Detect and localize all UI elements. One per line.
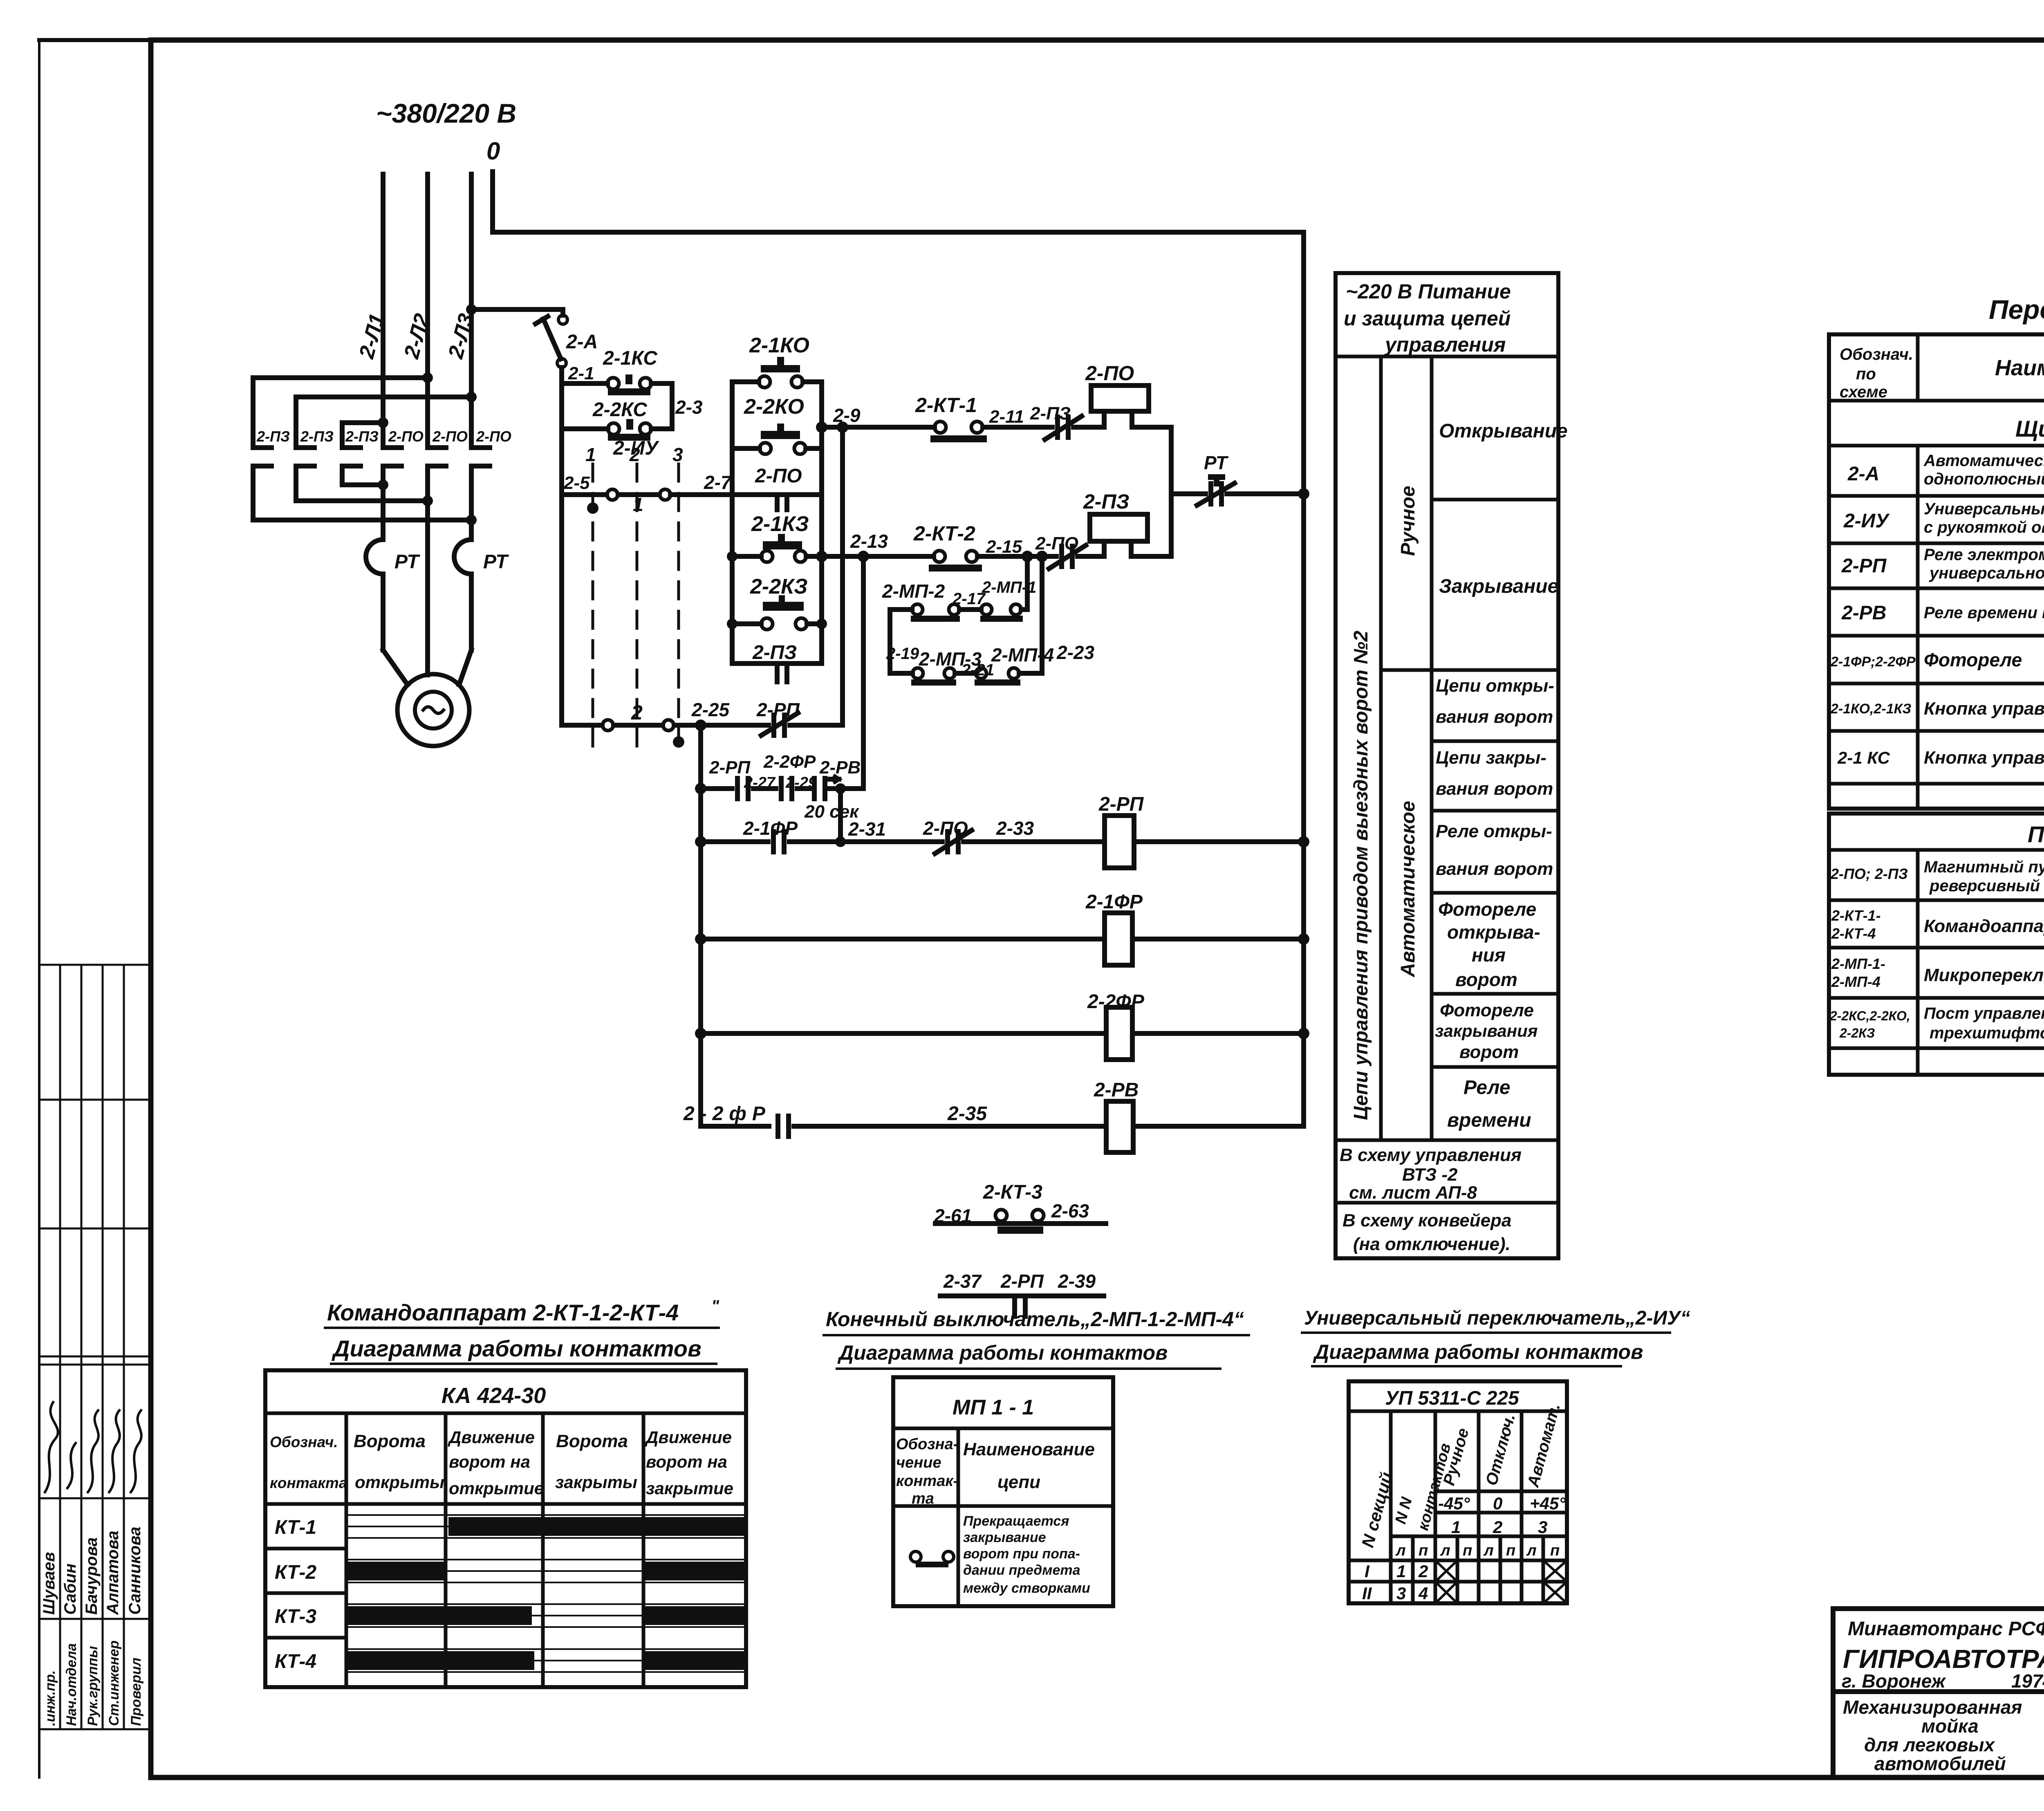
contact 2-ПО NC on РП rung: [945, 832, 950, 852]
svg-text:времени: времени: [1447, 1109, 1531, 1131]
svg-text:п: п: [1506, 1542, 1515, 1559]
svg-text:Шуваев: Шуваев: [40, 1552, 58, 1615]
svg-text:Фотореле: Фотореле: [1440, 1000, 1534, 1020]
button 2-2КЗ: [750, 575, 808, 598]
contact 2-ПЗ (block bottom stub): [752, 642, 797, 663]
contact 2-2ФР NO (bypass): [779, 778, 784, 799]
svg-text:2-ПО: 2-ПО: [1085, 362, 1134, 385]
svg-text:Командоаппарат 2-КТ-1-2-КТ-4: Командоаппарат 2-КТ-1-2-КТ-4: [327, 1300, 679, 1325]
svg-text:2-РВ: 2-РВ: [1841, 602, 1886, 624]
svg-text:РТ: РТ: [1204, 452, 1229, 473]
button 2-1КС: [562, 381, 607, 386]
svg-text:3: 3: [1538, 1517, 1547, 1537]
reversing loop middle (2-ПЗ column 2): [296, 397, 472, 448]
contact 2-1ФР NO: [771, 832, 776, 852]
svg-text:п: п: [1419, 1542, 1428, 1559]
svg-text:2-ПО; 2-ПЗ: 2-ПО; 2-ПЗ: [1830, 865, 1908, 882]
outer left paper line: [38, 40, 40, 1777]
svg-text:Обознач.: Обознач.: [270, 1434, 338, 1450]
svg-text:2-А: 2-А: [1847, 463, 1879, 485]
label ~380/220 В: [376, 98, 516, 128]
switch 2-ИУ contact row 2: [562, 723, 602, 728]
svg-text:2-1КО,2-1КЗ: 2-1КО,2-1КЗ: [1830, 701, 1912, 717]
svg-text:Автоматический выключатель: Автоматический выключатель: [1923, 452, 2044, 470]
svg-text:вания ворот: вания ворот: [1436, 779, 1553, 799]
svg-text:Микропереключатель: Микропереключатель: [1924, 965, 2044, 985]
CONTROL CIRCUIT: [471, 309, 843, 748]
svg-text:2-ПЗ: 2-ПЗ: [345, 428, 379, 445]
svg-text:2-ПЗ: 2-ПЗ: [300, 428, 334, 445]
node 0 (neutral label): [486, 137, 500, 165]
svg-text:В схему управления: В схему управления: [1340, 1145, 1522, 1165]
wire: phase 2-Л3: [469, 174, 474, 448]
svg-text:Наименование: Наименование: [963, 1439, 1095, 1459]
node bypass/РВ-drop junction: [835, 783, 846, 794]
svg-text:КА 424-30: КА 424-30: [442, 1383, 546, 1408]
svg-text:2-11: 2-11: [989, 407, 1024, 427]
svg-text:открыты: открыты: [355, 1473, 444, 1492]
svg-text:Обозна-: Обозна-: [896, 1436, 958, 1453]
bypass row (РП self-hold): [701, 786, 732, 791]
section 2 box: [1829, 814, 2044, 1075]
svg-text:реверсивный: реверсивный: [1929, 877, 2040, 895]
svg-text:2-3: 2-3: [675, 397, 703, 418]
svg-text:0: 0: [1493, 1494, 1502, 1513]
wire: left rail lower: [698, 725, 703, 1126]
svg-text:Проверил: Проверил: [128, 1658, 144, 1726]
wire: vertical link 2-13 to bypass row: [861, 556, 866, 789]
svg-text:закрыты: закрыты: [555, 1473, 637, 1492]
svg-text:дании предмета: дании предмета: [963, 1562, 1080, 1578]
svg-text:2-25: 2-25: [691, 699, 730, 720]
svg-text:та: та: [912, 1490, 934, 1507]
svg-text:2-ПО: 2-ПО: [432, 428, 468, 445]
wire: row A to button block: [670, 492, 732, 497]
node МП upper branch tap: [1022, 551, 1033, 562]
svg-text:Реле электромагнитное: Реле электромагнитное: [1924, 546, 2044, 564]
svg-text:ворот при попа-: ворот при попа-: [963, 1546, 1080, 1562]
РВ rung: [701, 1124, 769, 1129]
svg-text:Ворота: Ворота: [354, 1431, 426, 1451]
svg-text:Ручное: Ручное: [1397, 486, 1419, 556]
svg-text:Минавтотранс РСФСР: Минавтотранс РСФСР: [1848, 1618, 2044, 1640]
svg-text:2-13: 2-13: [850, 531, 888, 552]
svg-text:2-МП-1: 2-МП-1: [982, 578, 1036, 596]
svg-text:2-ПО: 2-ПО: [388, 428, 424, 445]
wire: left rail: [559, 368, 564, 725]
contact 2-РП NC on row B: [771, 715, 776, 735]
svg-text:закрытие: закрытие: [646, 1479, 733, 1498]
coil 2-ПЗ: [1083, 490, 1130, 513]
svg-text:1974 г.: 1974 г.: [2011, 1670, 2044, 1692]
svg-text:закрывание: закрывание: [963, 1530, 1046, 1545]
svg-text:2-2ФР: 2-2ФР: [763, 752, 816, 772]
svg-text:л: л: [1526, 1542, 1537, 1559]
svg-text:Пост управления кнопочный: Пост управления кнопочный: [1924, 1004, 2044, 1022]
svg-text:Перечень аппаратуры: Перечень аппаратуры: [1989, 294, 2044, 325]
svg-text:п: п: [1463, 1542, 1472, 1559]
svg-text:ворот на: ворот на: [449, 1452, 530, 1471]
svg-text:2-1ФР: 2-1ФР: [1085, 891, 1143, 913]
svg-text:Прекращается: Прекращается: [963, 1513, 1069, 1529]
svg-text:2-1КЗ: 2-1КЗ: [751, 512, 809, 536]
svg-text:2-ИУ: 2-ИУ: [1843, 510, 1890, 532]
junction dots power: [378, 304, 477, 525]
coil 2-1ФР: [1105, 913, 1132, 965]
svg-text:для легковых: для легковых: [1864, 1734, 1996, 1755]
svg-text:2-23: 2-23: [1056, 642, 1094, 663]
signature squiggle 3: [88, 1410, 99, 1492]
VERTICAL FUNCTION TABLE: [1336, 273, 1558, 1258]
svg-text:2-1: 2-1: [568, 363, 594, 383]
contact 2-2ФР NO (РВ rung): [775, 1116, 780, 1136]
svg-text:управления: управления: [1384, 333, 1506, 356]
svg-text:4: 4: [1418, 1584, 1428, 1603]
svg-text:ворот: ворот: [1459, 1042, 1519, 1062]
contact closure bars: [347, 1517, 745, 1670]
svg-text:Цепи управления приводом в: Цепи управления приводом выездных ворот …: [1350, 631, 1372, 1120]
svg-text:г. Воронеж: г. Воронеж: [1842, 1670, 1946, 1692]
svg-text:(на отключение).: (на отключение).: [1353, 1234, 1511, 1254]
wire: neutral 0 drop: [490, 172, 495, 232]
svg-text:п: п: [1550, 1542, 1560, 1559]
svg-text:Сабин: Сабин: [61, 1564, 79, 1615]
contact 2-ПЗ NC on rung 2-9: [1055, 417, 1060, 437]
svg-text:2-37: 2-37: [943, 1271, 982, 1292]
svg-text:2-А: 2-А: [566, 331, 598, 353]
svg-text:ворот: ворот: [1455, 969, 1517, 990]
svg-text:Ст.инженер: Ст.инженер: [106, 1641, 122, 1726]
labels 2-ПЗ x3: [256, 428, 379, 445]
node 2-25 junction: [695, 719, 706, 731]
button 2-2КО: [744, 395, 804, 419]
node rail/РП rung junction: [695, 836, 706, 847]
svg-text:Санникова: Санникова: [126, 1527, 144, 1615]
wire: phase 2-Л3 lower: [469, 466, 474, 540]
svg-text:2-РП: 2-РП: [1098, 793, 1144, 815]
SIGNATURE STRIP (left margin form): [39, 965, 151, 1729]
svg-text:КТ-2: КТ-2: [275, 1562, 316, 1583]
svg-text:Кнопка управления: Кнопка управления: [1924, 699, 2044, 719]
svg-text:вания ворот: вания ворот: [1436, 859, 1553, 879]
KA 424-30 DIAGRAM TABLE: [265, 1297, 746, 1687]
svg-text:Бачурова: Бачурова: [83, 1538, 101, 1615]
wire: open rung 2-9: [822, 425, 935, 430]
contact 2-ПО phase2 (power): [428, 445, 446, 450]
wire: close rung 2-13: [822, 554, 934, 559]
contact 2-ПО NC on rung 2-13: [1059, 546, 1064, 567]
svg-text:2-9: 2-9: [833, 405, 861, 426]
svg-text:и защита цепей: и защита цепей: [1344, 307, 1511, 330]
svg-text:1: 1: [1451, 1517, 1461, 1537]
svg-text:трехштифтовый: трехштифтовый: [1930, 1024, 2044, 1042]
wire: МП lower branch drop: [1040, 556, 1044, 673]
wire: row B: [674, 723, 769, 728]
svg-text:Открывание: Открывание: [1439, 420, 1568, 442]
svg-text:Диаграмма работы контактов: Диаграмма работы контактов: [332, 1336, 702, 1361]
2-1ФР rung: [701, 937, 1105, 941]
contact 2-РВ timed (bypass): [812, 778, 817, 799]
svg-text:2-ПО: 2-ПО: [755, 465, 802, 487]
svg-text:2-КТ-2: 2-КТ-2: [913, 522, 975, 545]
button 2-2КС: [562, 426, 608, 431]
svg-text:Реле: Реле: [1464, 1077, 1511, 1098]
svg-text:I: I: [1365, 1562, 1370, 1581]
node 2-13 junction on right rail: [816, 551, 827, 562]
svg-text:2-2КЗ: 2-2КЗ: [750, 575, 808, 598]
svg-text:2-КТ-1: 2-КТ-1: [915, 394, 977, 417]
svg-text:2-2КС: 2-2КС: [592, 399, 648, 421]
svg-text:2-7: 2-7: [704, 472, 732, 493]
contact 2-КТ-1: [915, 394, 977, 417]
svg-text:2-МП-2: 2-МП-2: [882, 581, 945, 602]
button 2-1КЗ: [751, 512, 809, 536]
svg-text:2-63: 2-63: [1051, 1200, 1089, 1222]
svg-text:2-ПЗ: 2-ПЗ: [752, 642, 797, 663]
coil 2-РП: [1098, 793, 1144, 815]
svg-text:л: л: [1440, 1542, 1450, 1559]
svg-text:Реле времени пневматическое: Реле времени пневматическое: [1924, 604, 2044, 622]
reversing loop inner (2-ПЗ column 3): [342, 423, 384, 448]
wire: phase3 tap to breaker: [471, 307, 563, 312]
wire: phase 2-Л2: [425, 174, 430, 448]
svg-text:0: 0: [486, 137, 500, 165]
svg-text:2-1ФР: 2-1ФР: [743, 818, 798, 839]
2-2ФР rung: [701, 1031, 1106, 1036]
svg-text:2: 2: [629, 444, 640, 465]
svg-text:МП 1 - 1: МП 1 - 1: [953, 1396, 1034, 1419]
signature squiggle 2: [67, 1443, 76, 1488]
svg-text:открыва-: открыва-: [1447, 921, 1540, 943]
svg-text:II: II: [1362, 1584, 1372, 1603]
svg-text:см. лист АП-8: см. лист АП-8: [1349, 1183, 1477, 1203]
node 2ФР rung / bus junction: [1298, 1028, 1309, 1039]
svg-text:2-РП: 2-РП: [1841, 555, 1887, 577]
svg-text:В схему конвейера: В схему конвейера: [1342, 1210, 1511, 1230]
reversing loop outer (2-ПЗ column 1): [253, 378, 428, 448]
svg-text:мойка: мойка: [1921, 1715, 1979, 1737]
РП rung: [701, 839, 768, 844]
wire: block rung on row A: [732, 492, 822, 497]
node РТ row / bus junction: [1298, 488, 1309, 500]
svg-text:-45°: -45°: [1438, 1494, 1470, 1513]
svg-text:между створками: между створками: [963, 1580, 1090, 1596]
svg-text:л: л: [1483, 1542, 1494, 1559]
svg-text:Щит автоматизации: Щит автоматизации: [2015, 416, 2044, 442]
svg-text:РТ: РТ: [394, 551, 420, 573]
svg-text:Диаграмма работы контактов: Диаграмма работы контактов: [1313, 1340, 1643, 1363]
svg-text:2-МП-4: 2-МП-4: [991, 644, 1054, 666]
svg-text:2-33: 2-33: [996, 818, 1034, 839]
limit switch symbol: [910, 1551, 921, 1562]
svg-text:2-39: 2-39: [1058, 1271, 1096, 1292]
svg-text:3: 3: [672, 444, 683, 465]
svg-text:2-2КС,2-2КО,: 2-2КС,2-2КО,: [1829, 1009, 1910, 1023]
svg-text:вания ворот: вания ворот: [1436, 707, 1553, 727]
wire: common drop to РТ row: [1169, 427, 1174, 556]
svg-text:1: 1: [1396, 1562, 1406, 1581]
svg-text:~380/220 В: ~380/220 В: [376, 98, 516, 128]
svg-text:2: 2: [631, 701, 643, 724]
svg-text:автомобилей: автомобилей: [1874, 1753, 2006, 1774]
label 2-Л2: [399, 311, 434, 361]
microswitch block 2-МП lower branch: [888, 610, 892, 673]
wire: phase 2-Л2 lower: [425, 466, 430, 675]
wire: vertical link 2-9 to row B: [840, 427, 845, 725]
svg-text:схеме: схеме: [1840, 383, 1887, 401]
label 2-Л1: [354, 311, 389, 361]
TITLE BLOCK: [1833, 1609, 2044, 1777]
svg-text:1: 1: [633, 494, 643, 515]
title: [1989, 294, 2044, 325]
svg-text:закрывания: закрывания: [1435, 1021, 1538, 1040]
wire: 2-1КС to 2-2КС: [651, 383, 672, 429]
thermal relay РТ heater phase3: [454, 540, 471, 574]
wire: right bus: [1301, 232, 1306, 1126]
BUTTON BLOCK rails: [730, 382, 735, 663]
svg-text:2-ПЗ: 2-ПЗ: [256, 428, 290, 445]
svg-text:Механизированная: Механизированная: [1843, 1697, 2022, 1718]
wire: motor feeders converge: [383, 650, 408, 685]
svg-text:Конечный выключатель„2-МП-1-2: Конечный выключатель„2-МП-1-2-МП-4“: [826, 1308, 1244, 1331]
node РП rung / bus junction: [1298, 836, 1309, 847]
strip column lines: [59, 965, 61, 1729]
coil 2-РВ: [1094, 1079, 1139, 1101]
node 1ФР rung / bus junction: [1298, 933, 1309, 945]
rotated headers: [1358, 1401, 1564, 1549]
svg-text:Универсальный переключатель„2: Универсальный переключатель„2-ИУ“: [1304, 1307, 1690, 1329]
svg-text:цепи: цепи: [997, 1472, 1040, 1492]
node 2-9 junction on right rail: [816, 421, 827, 433]
spare contact 2-КТ-3: [934, 1181, 1089, 1226]
svg-text:Универсальный переключатель: Универсальный переключатель: [1924, 500, 2044, 518]
node rail/2ФР rung junction: [695, 1028, 706, 1039]
svg-text:2-КТ-4: 2-КТ-4: [1831, 925, 1876, 942]
CONTROL RUNGS: [683, 232, 1309, 1316]
svg-text:.инж.пр.: .инж.пр.: [43, 1670, 58, 1726]
svg-text:с рукояткой овальной формы: с рукояткой овальной формы: [1924, 518, 2044, 536]
coil 2-ПО: [1085, 362, 1134, 385]
svg-text:КТ-1: КТ-1: [275, 1517, 316, 1538]
svg-text:ВТЗ -2: ВТЗ -2: [1402, 1165, 1458, 1185]
svg-text:РТ: РТ: [483, 551, 509, 573]
thermal relay РТ heater phase1: [366, 540, 383, 574]
svg-text:2: 2: [1418, 1562, 1428, 1581]
svg-text:2-15: 2-15: [986, 537, 1022, 557]
svg-text:л: л: [1395, 1542, 1406, 1559]
svg-text:2-ПЗ: 2-ПЗ: [1083, 490, 1130, 513]
svg-text:Автоматическое: Автоматическое: [1397, 801, 1419, 977]
contact 2-КТ-2: [913, 522, 975, 545]
svg-text:Алпатова: Алпатова: [104, 1531, 122, 1615]
svg-text:2-КТ-3: 2-КТ-3: [983, 1181, 1042, 1203]
contact 2-РП NO (bypass): [735, 778, 740, 799]
strip horizontal rules: [39, 964, 151, 966]
svg-text:2-1ФР;2-2ФР: 2-1ФР;2-2ФР: [1830, 654, 1916, 670]
svg-text:Рук.группы: Рук.группы: [85, 1646, 101, 1726]
svg-text:по: по: [1856, 365, 1876, 383]
table box: [265, 1370, 746, 1687]
titles: [327, 1297, 719, 1361]
svg-text:1: 1: [585, 444, 596, 465]
signature squiggle 1: [45, 1402, 58, 1492]
node junction close-rung / bypass vertical: [858, 551, 869, 562]
svg-text:2-РВ: 2-РВ: [819, 758, 861, 778]
svg-text:ГИПРОАВТОТРАНС: ГИПРОАВТОТРАНС: [1843, 1644, 2044, 1674]
wire: bypass drop to РП rung: [838, 789, 843, 842]
POWER SECTION: [253, 98, 1304, 746]
signature squiggle 5: [131, 1410, 141, 1492]
svg-text:2-2фР: 2-2фР: [683, 1103, 771, 1125]
svg-text:Кнопка управления: Кнопка управления: [1924, 748, 2044, 768]
label 2-ПО x3: [388, 428, 511, 445]
svg-text:+45°: +45°: [1530, 1494, 1566, 1513]
svg-text:Наименование: Наименование: [1995, 356, 2044, 380]
switch 2-ИУ contact row 1 (2-5 / 2-7): [562, 492, 607, 497]
svg-text:": ": [711, 1297, 719, 1315]
svg-text:2-ПО: 2-ПО: [476, 428, 511, 445]
Л/П row: [1391, 1535, 1435, 1538]
node МП lower branch tap 2-23: [1036, 551, 1048, 562]
svg-text:контакта: контакта: [270, 1475, 347, 1491]
svg-text:КТ-4: КТ-4: [275, 1651, 316, 1672]
contact РТ thermal: [1171, 491, 1206, 496]
svg-text:ния: ния: [1472, 944, 1506, 966]
node rail/bypass junction: [695, 783, 706, 794]
svg-text:Обознач.: Обознач.: [1840, 345, 1913, 363]
MP 1-1 DIAGRAM TABLE: [824, 1308, 1249, 1606]
svg-text:2-1КС: 2-1КС: [603, 347, 658, 369]
svg-text:2-МП-1-: 2-МП-1-: [1831, 955, 1885, 972]
switch 2-ИУ section dashed lines: [593, 464, 679, 748]
svg-text:универсальное: универсальное: [1929, 564, 2044, 582]
svg-text:чение: чение: [896, 1454, 941, 1471]
-45/0/+45 row: [1435, 1490, 1567, 1493]
svg-text:Нач.отдела: Нач.отдела: [64, 1643, 79, 1726]
svg-text:~220 В Питание: ~220 В Питание: [1346, 280, 1511, 303]
svg-text:2-5: 2-5: [563, 473, 590, 493]
svg-text:2-РВ: 2-РВ: [1094, 1079, 1139, 1101]
X marks: [1435, 1560, 1567, 1603]
svg-text:ворот на: ворот на: [646, 1452, 727, 1471]
switch 2-ИУ label: [613, 437, 659, 459]
spare contact 2-РП (2-37/2-39): [943, 1271, 1096, 1292]
svg-text:Фотореле: Фотореле: [1438, 899, 1536, 920]
EQUIPMENT LIST TABLE: [1829, 294, 2044, 1075]
svg-text:открытие: открытие: [449, 1479, 544, 1498]
svg-text:Цепи откры-: Цепи откры-: [1436, 676, 1554, 696]
svg-text:2-21: 2-21: [961, 661, 994, 679]
node junction open-rung / vertical link: [837, 421, 848, 433]
data rows: [1349, 1580, 1567, 1584]
svg-text:однополюсный: однополюсный: [1924, 470, 2044, 488]
svg-text:По месту: По месту: [2028, 821, 2044, 847]
svg-text:2-2КЗ: 2-2КЗ: [1839, 1026, 1875, 1040]
node rail/1ФР rung junction: [695, 933, 706, 945]
contact 2-ПО (block stub): [755, 465, 802, 487]
label 2-Л3: [444, 311, 478, 361]
wire: МП upper branch drop: [1025, 556, 1030, 610]
svg-text:2-КТ-1-: 2-КТ-1-: [1831, 907, 1881, 924]
svg-text:2-1 КС: 2-1 КС: [1837, 748, 1890, 767]
svg-text:2-1КО: 2-1КО: [749, 334, 809, 357]
column lines: [1389, 1411, 1393, 1603]
svg-text:Закрывание: Закрывание: [1439, 576, 1558, 597]
svg-text:2-19: 2-19: [886, 645, 919, 663]
timeline thin rules: [346, 1515, 746, 1672]
svg-text:2-17: 2-17: [952, 590, 986, 608]
svg-text:Магнитный пускатель: Магнитный пускатель: [1924, 858, 2044, 876]
